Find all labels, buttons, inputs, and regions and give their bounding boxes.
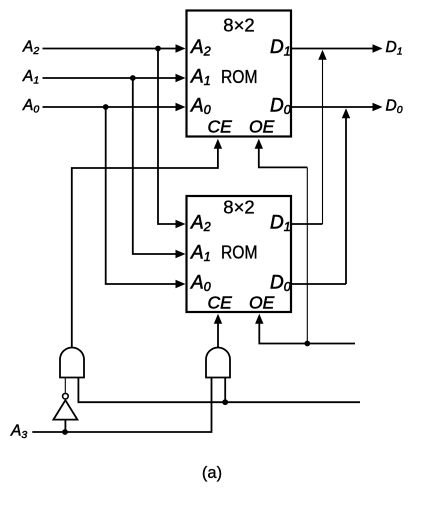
wire U2 D0 join to D0 bus — [292, 108, 350, 284]
wire G1 left input from inverter — [64, 378, 66, 393]
svg-text:CE: CE — [208, 117, 233, 137]
wire A0 branch to U2 — [106, 107, 186, 288]
junction on A2 line — [155, 46, 161, 52]
junction enable node on OE line — [304, 341, 310, 347]
wire inverter input — [64, 420, 66, 432]
wire U2 D1 join to D1 bus — [292, 50, 327, 224]
junction on A3 line — [62, 429, 68, 435]
wire A0 input to U1 — [43, 103, 186, 111]
inverter G3 bubble — [63, 393, 69, 399]
ROM U2 (bottom 8x2 ROM) box — [187, 196, 292, 312]
wire G2 right input — [224, 378, 226, 403]
wire A2 branch to U2 — [158, 49, 186, 229]
wire A1 branch to U2 — [133, 78, 186, 258]
wire U2 OE to external enable line — [255, 314, 355, 344]
wire U1 OE link down to enable node — [255, 139, 308, 344]
svg-text:ROM: ROM — [221, 242, 258, 263]
wire AND G2 output to U2 CE — [214, 314, 222, 348]
AND gate G2 — [206, 348, 230, 378]
junction on A0 line — [103, 104, 109, 110]
svg-text:OE: OE — [249, 293, 275, 313]
wire A2 input to U1 — [43, 44, 186, 52]
ROM U1 (top 8x2 ROM) box — [187, 11, 292, 137]
svg-text:(a): (a) — [202, 464, 222, 482]
junction on select bus — [222, 399, 228, 405]
wire A3 input to AND G2 left input — [32, 378, 211, 433]
junction on A1 line — [130, 75, 136, 81]
wire AND G1 output to U1 CE — [72, 139, 222, 348]
svg-text:CE: CE — [208, 293, 233, 313]
svg-text:OE: OE — [249, 117, 275, 137]
wire D0 output bus — [292, 103, 383, 111]
AND gate G1 — [60, 348, 84, 378]
wire D1 output bus — [292, 44, 383, 52]
wire A1 input to U1 — [43, 74, 186, 82]
wire G1 right input / select bus — [78, 378, 360, 403]
inverter G3 triangle — [53, 400, 77, 419]
svg-text:8×2: 8×2 — [223, 15, 254, 36]
svg-text:8×2: 8×2 — [223, 197, 254, 218]
svg-text:ROM: ROM — [221, 66, 258, 87]
